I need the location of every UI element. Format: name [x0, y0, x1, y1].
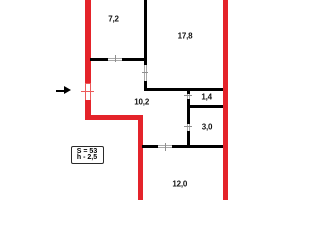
entrance arrow	[56, 90, 66, 92]
wall bottom of room 1,4	[190, 105, 224, 108]
wall red left lower segment (below window)	[85, 100, 91, 119]
door opening to room 3,0	[186, 124, 189, 131]
wall top of room 12,0 right segment	[172, 145, 223, 148]
wall left of rooms 1,4 and 3,0 segment 1	[187, 91, 190, 94]
door/window opening in divider wall	[143, 65, 146, 81]
window in left red wall	[85, 83, 91, 101]
room label 10,2	[134, 98, 149, 107]
room label 12,0	[172, 179, 187, 188]
room label 17,8	[178, 31, 193, 40]
door opening to room 1,4	[186, 94, 189, 99]
wall bottom of room 17,8	[144, 88, 224, 91]
room label 3,0	[202, 123, 213, 132]
wall left of rooms 1,4 and 3,0 segment 2	[187, 99, 190, 124]
wall bottom of room 7,2 right segment	[122, 58, 147, 61]
room label 1,4	[201, 92, 212, 101]
wall left of rooms 1,4 and 3,0 segment 3	[187, 131, 190, 148]
room label 7,2	[108, 15, 119, 24]
window mid line	[81, 91, 94, 92]
wall red horizontal jog	[85, 115, 143, 120]
wall divider lower part	[144, 81, 147, 91]
wall bottom of room 7,2 left segment	[90, 58, 108, 61]
wall top of room 12,0 left segment	[142, 145, 158, 148]
window in bottom wall of room 7,2	[108, 57, 122, 60]
wall red right vertical	[223, 0, 228, 200]
wall red lower-left vertical	[138, 115, 143, 201]
wall red left upper segment (above window)	[85, 0, 91, 83]
window in top wall of room 12,0	[158, 144, 172, 147]
legend box S=53 h-2,5	[71, 146, 104, 164]
wall divider between rooms 7,2 and 17,8 upper part	[144, 0, 147, 65]
